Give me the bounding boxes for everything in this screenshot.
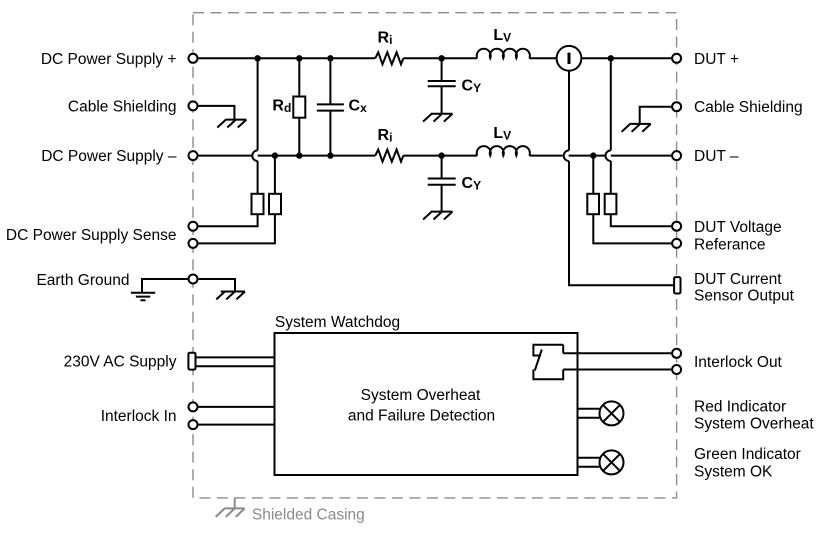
svg-text:Referance: Referance [694,236,766,253]
svg-text:CY: CY [462,77,482,95]
svg-text:DC Power Supply +: DC Power Supply + [41,51,177,68]
svg-text:CY: CY [462,175,482,193]
svg-text:Shielded Casing: Shielded Casing [252,506,365,523]
svg-text:Ri: Ri [378,30,393,48]
svg-text:230V AC Supply: 230V AC Supply [64,354,177,371]
svg-text:DUT Current: DUT Current [694,271,782,288]
svg-text:Interlock Out: Interlock Out [694,354,783,371]
svg-text:Rd: Rd [272,98,291,116]
svg-text:System Watchdog: System Watchdog [275,314,400,331]
svg-text:Ri: Ri [378,127,393,145]
svg-text:LV: LV [493,27,511,45]
svg-text:LV: LV [493,125,511,143]
svg-text:System Overheat: System Overheat [694,415,814,432]
svg-text:Interlock In: Interlock In [101,408,177,425]
svg-text:System Overheat: System Overheat [361,387,481,404]
svg-text:Red Indicator: Red Indicator [694,398,786,415]
svg-text:DUT +: DUT + [694,51,739,68]
svg-text:Cable Shielding: Cable Shielding [694,99,803,116]
svg-text:Cable Shielding: Cable Shielding [68,98,177,115]
svg-text:DUT Voltage: DUT Voltage [694,219,782,236]
svg-text:and Failure Detection: and Failure Detection [348,408,495,425]
svg-text:DUT –: DUT – [694,148,739,165]
svg-text:Sensor Output: Sensor Output [694,288,795,305]
svg-text:System OK: System OK [694,463,773,480]
svg-text:Cx: Cx [349,98,368,116]
svg-text:Green Indicator: Green Indicator [694,446,801,463]
svg-text:DC Power Supply Sense: DC Power Supply Sense [6,227,177,244]
svg-text:Earth Ground: Earth Ground [36,272,129,289]
svg-text:DC Power Supply –: DC Power Supply – [41,148,177,165]
